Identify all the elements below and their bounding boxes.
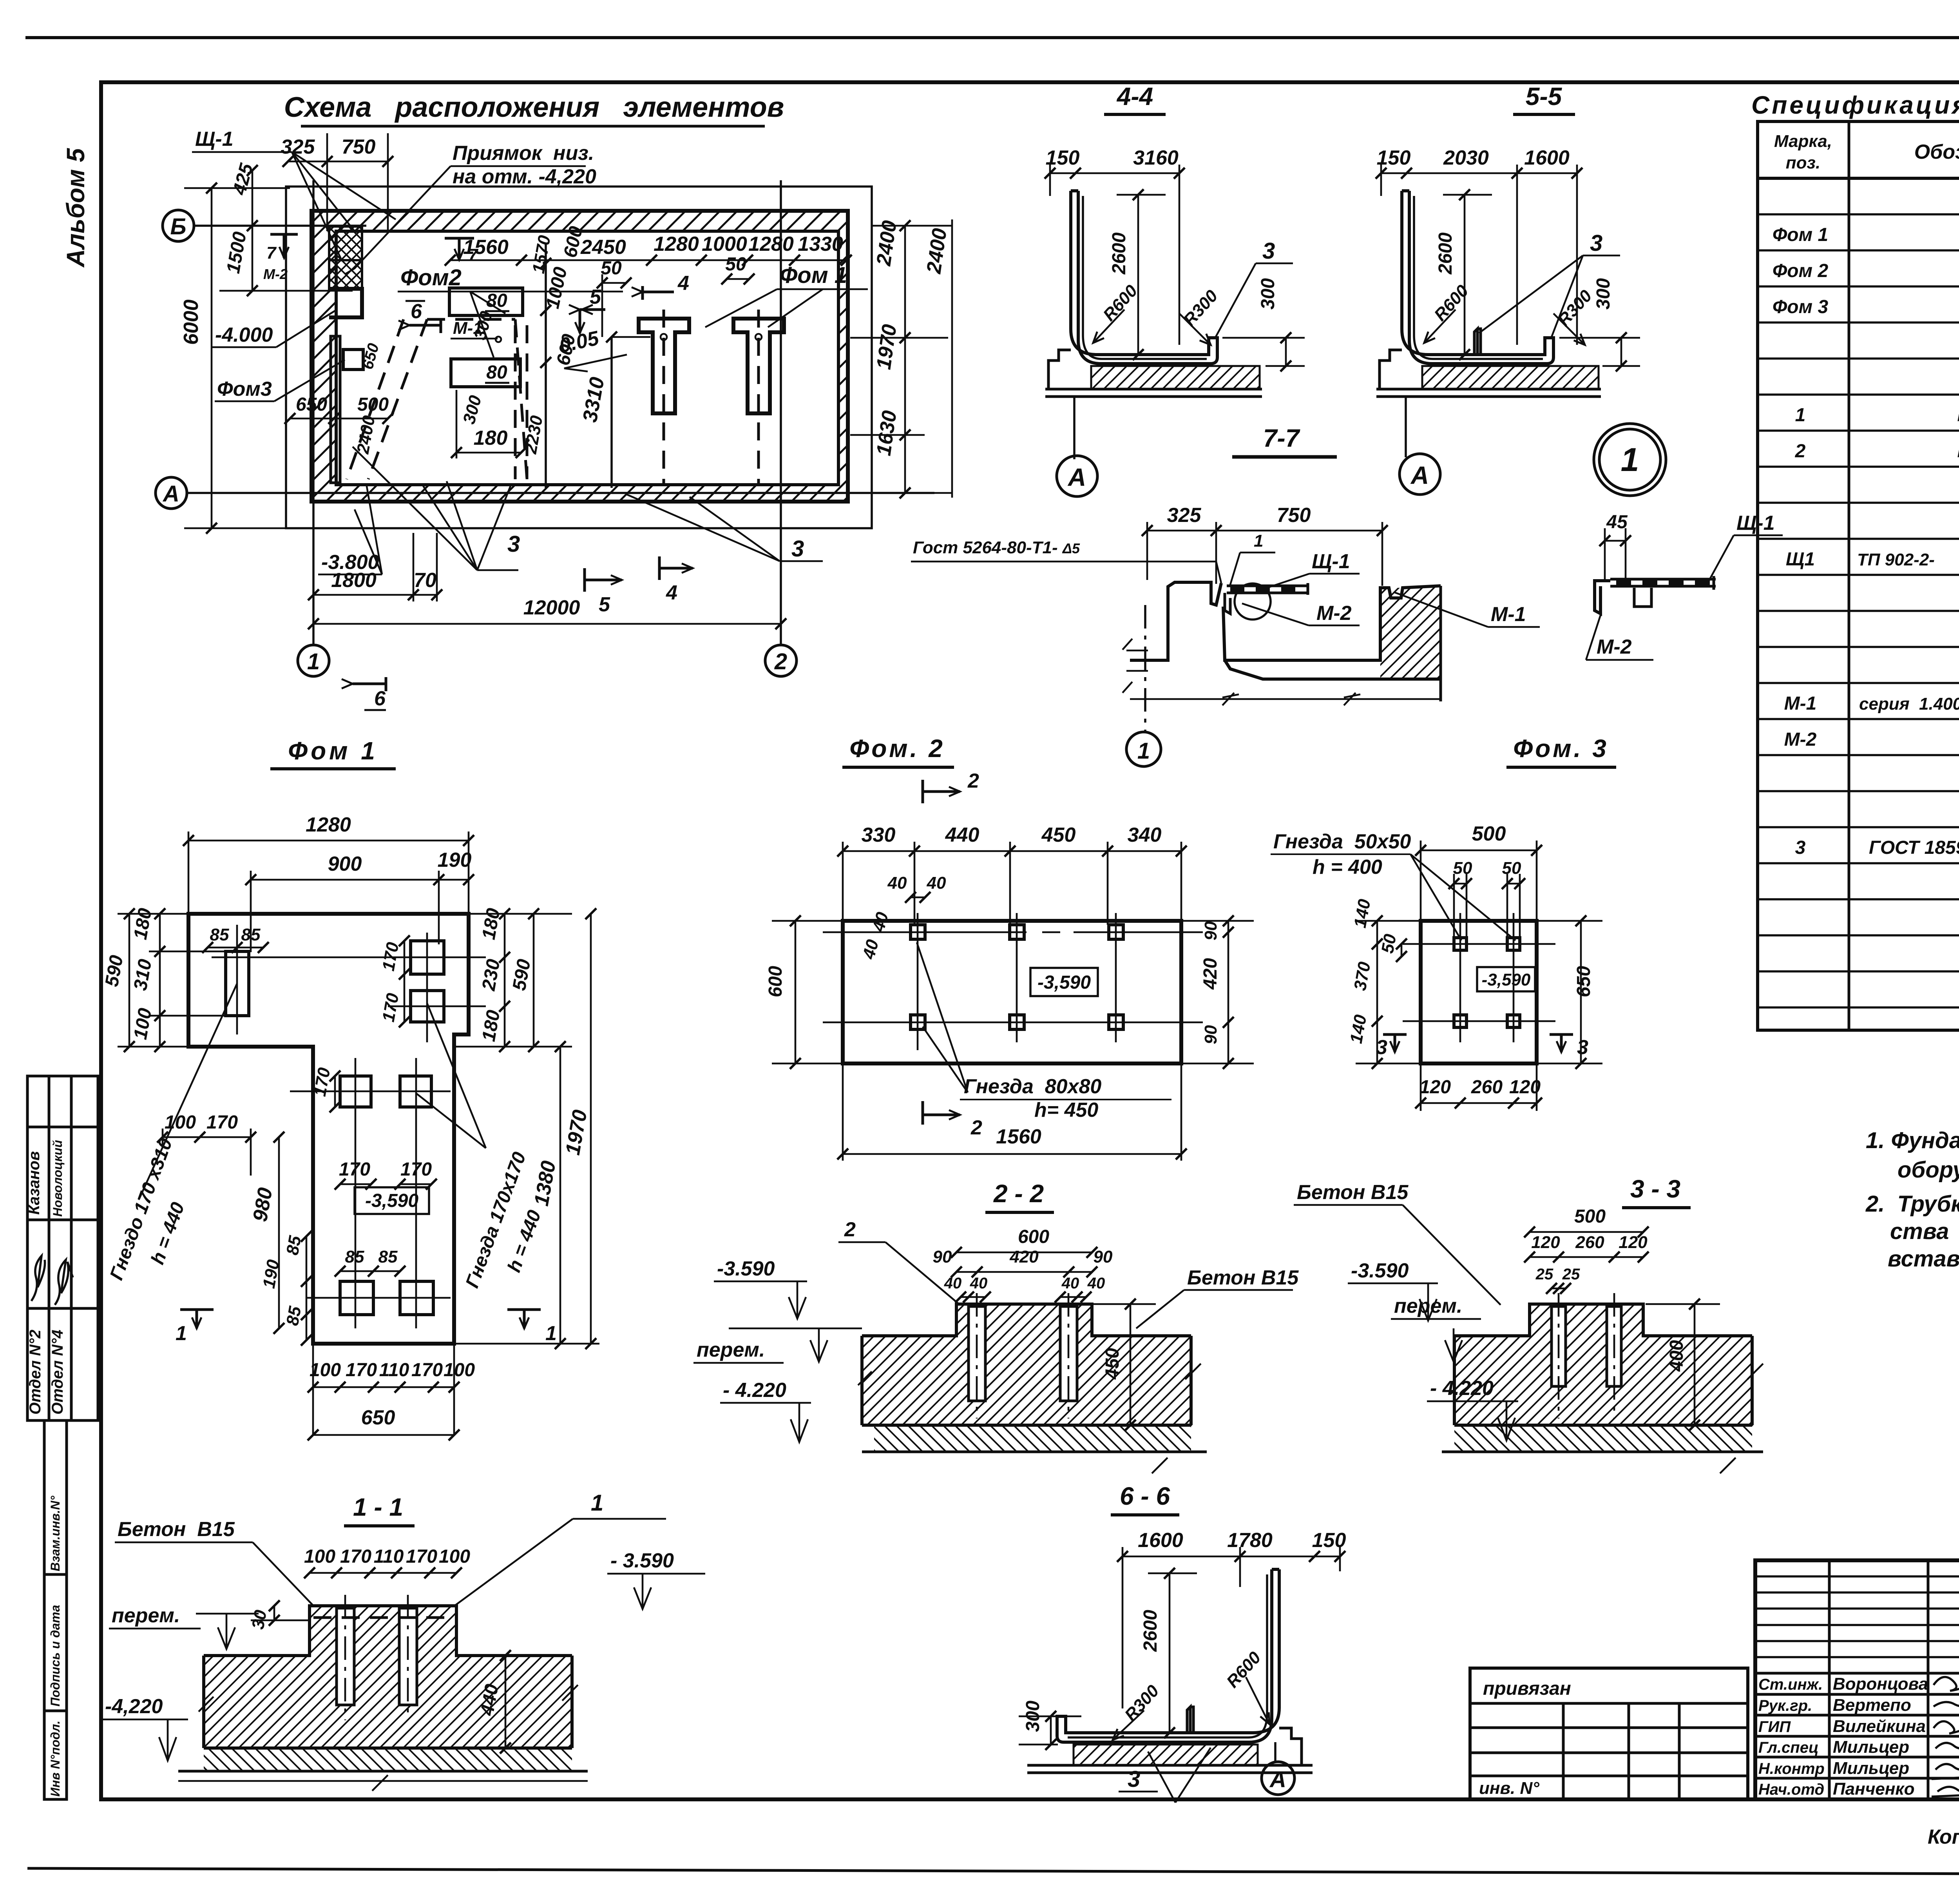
spec table row lines — [1758, 214, 1959, 1007]
svg-text:Отдел N°2: Отдел N°2 — [27, 1330, 44, 1415]
Фом 1 centerlines — [212, 925, 486, 1328]
svg-text:50: 50 — [1453, 859, 1472, 878]
svg-text:330: 330 — [862, 824, 896, 846]
svg-text:Спецификация к схеме располо: Спецификация к схеме расположения фундам… — [1751, 91, 1959, 119]
section 6-6 base lines — [1027, 1765, 1313, 1773]
plan outer thin rectangle — [286, 187, 872, 528]
svg-text:-4,220: -4,220 — [105, 1695, 163, 1718]
svg-text:420: 420 — [1200, 958, 1221, 990]
Фом 2 elevation box -3,590 — [1030, 968, 1098, 996]
axis circle А — [156, 477, 187, 509]
section 4-4 base lines — [1045, 389, 1262, 397]
plan wall band hatched ring — [311, 211, 848, 502]
svg-text:Щ-1: Щ-1 — [1312, 550, 1350, 573]
svg-text:Гнезда 80х80: Гнезда 80х80 — [964, 1075, 1101, 1098]
svg-text:1600: 1600 — [1138, 1529, 1183, 1552]
svg-text:170: 170 — [400, 1159, 432, 1180]
svg-text:2600: 2600 — [1140, 1610, 1161, 1652]
svg-text:1000: 1000 — [702, 233, 747, 255]
svg-text:3: 3 — [1128, 1766, 1140, 1792]
svg-text:ГИП: ГИП — [1758, 1718, 1791, 1736]
svg-text:4-4: 4-4 — [1116, 82, 1153, 111]
svg-text:2. Трубки закладываются в: 2. Трубки закладываются во время устрой- — [1865, 1191, 1959, 1217]
svg-text:25: 25 — [1562, 1266, 1580, 1283]
svg-text:170: 170 — [411, 1360, 443, 1380]
svg-text:450: 450 — [1041, 824, 1076, 846]
svg-text:120: 120 — [1619, 1233, 1648, 1252]
section 2-2 sleeve left — [969, 1306, 985, 1401]
svg-text:4: 4 — [677, 272, 689, 295]
svg-text:Щ-1: Щ-1 — [1736, 512, 1775, 534]
niche thick rect below panel — [329, 289, 362, 317]
Фом 1 socket lower left — [340, 1281, 373, 1315]
svg-text:85: 85 — [283, 1305, 305, 1327]
extension line 2450/1570 — [545, 243, 547, 488]
T-column Фом1 left — [639, 319, 689, 413]
svg-text:Ст.инж.: Ст.инж. — [1758, 1676, 1823, 1693]
svg-text:750: 750 — [342, 136, 376, 158]
svg-text:500: 500 — [357, 394, 389, 415]
svg-text:Щ1: Щ1 — [1786, 549, 1815, 570]
svg-text:650: 650 — [296, 394, 327, 415]
svg-text:100: 100 — [304, 1546, 335, 1567]
svg-text:170: 170 — [406, 1546, 437, 1567]
title block signature rows — [1755, 1673, 1959, 1778]
svg-text:Копировал Ф: Копировал Ф — [1928, 1826, 1959, 1848]
svg-text:1: 1 — [1137, 738, 1150, 764]
svg-text:ТП 902-2-: ТП 902-2- — [1857, 550, 1935, 569]
svg-text:2: 2 — [844, 1218, 856, 1241]
Фом 3 centerlines — [1403, 913, 1555, 1042]
section 3-3 block outline — [1454, 1304, 1752, 1425]
Фом 1 socket lower right — [400, 1281, 433, 1315]
svg-text:1 - 1: 1 - 1 — [353, 1493, 403, 1521]
svg-text:-3,590: -3,590 — [1037, 972, 1091, 993]
svg-text:М-2: М-2 — [1784, 729, 1817, 750]
svg-text:5: 5 — [599, 593, 610, 616]
svg-text:85: 85 — [210, 925, 229, 944]
привязан table columns — [1563, 1703, 1679, 1799]
svg-text:80: 80 — [486, 362, 507, 383]
dim 6000 line — [184, 188, 290, 528]
svg-text:50: 50 — [1502, 859, 1521, 878]
svg-text:40: 40 — [1087, 1275, 1105, 1292]
svg-text:400: 400 — [1666, 1340, 1687, 1372]
sheet outer top border line — [25, 36, 1959, 39]
svg-text:Фом3: Фом3 — [217, 378, 272, 400]
section 6-6 middle pipe stub — [1187, 1707, 1193, 1733]
section 6-6 wall and floor — [1057, 1569, 1279, 1742]
svg-text:Вертепо: Вертепо — [1833, 1696, 1911, 1715]
svg-text:М-1: М-1 — [1784, 693, 1817, 714]
svg-text:Щ-1: Щ-1 — [195, 128, 234, 150]
Фом 2 section mark 2 top — [923, 780, 960, 803]
М-2 detail panel strip — [1610, 576, 1716, 590]
section 2-2 block outline — [862, 1304, 1191, 1425]
section 3-3 sleeve right — [1607, 1306, 1621, 1386]
svg-text:12000: 12000 — [523, 596, 580, 619]
svg-text:Новолоцкий: Новолоцкий — [51, 1140, 65, 1217]
svg-text:А: А — [162, 481, 179, 507]
section 5-5 floor slab hatched — [1422, 366, 1599, 389]
svg-text:40: 40 — [944, 1275, 962, 1292]
svg-text:6: 6 — [411, 300, 422, 323]
panel Щ-1 second crosshatched cell — [329, 260, 362, 289]
section 1-1 dashed line in pedestal — [313, 1616, 454, 1619]
Фом 2 centerlines — [823, 913, 1203, 1050]
spec table outer box — [1758, 121, 1959, 1030]
axis circle Б — [163, 210, 194, 241]
svg-text:-3.590: -3.590 — [1351, 1259, 1409, 1282]
svg-text:100: 100 — [439, 1546, 470, 1567]
svg-text:Н.контр: Н.контр — [1758, 1760, 1825, 1777]
section 7-7 axis circle 1 — [1126, 732, 1161, 766]
svg-text:оборудования.: оборудования. — [1897, 1157, 1959, 1183]
svg-text:Приямок низ.: Приямок низ. — [453, 142, 594, 165]
svg-text:1: 1 — [545, 1322, 557, 1345]
svg-text:500: 500 — [1472, 822, 1506, 845]
svg-text:перем.: перем. — [1394, 1295, 1462, 1317]
svg-text:инв. N°: инв. N° — [1479, 1779, 1539, 1798]
svg-text:40: 40 — [970, 1275, 988, 1292]
svg-text:450: 450 — [1102, 1348, 1123, 1380]
svg-text:-3,590: -3,590 — [1482, 970, 1531, 989]
svg-text:Бетон В15: Бетон В15 — [1297, 1181, 1409, 1204]
svg-text:- 4.220: - 4.220 — [723, 1379, 786, 1402]
svg-text:420: 420 — [1009, 1247, 1039, 1266]
svg-text:М-2: М-2 — [263, 266, 288, 282]
dim line top — [288, 133, 388, 231]
svg-text:1: 1 — [1621, 441, 1639, 478]
section 3-3 sleeve left — [1552, 1306, 1566, 1386]
svg-text:Фом2: Фом2 — [400, 265, 462, 290]
svg-text:90: 90 — [1201, 921, 1220, 940]
section 6-6 floor slab hatched — [1074, 1745, 1258, 1765]
svg-text:1560: 1560 — [996, 1125, 1041, 1148]
Фом 3 sockets — [1454, 938, 1520, 1027]
Фом 3 elevation box -3,590 — [1477, 967, 1535, 991]
foundation Фом2 rectangle 1 — [449, 288, 523, 315]
Фом 2 sockets top row — [911, 925, 1123, 939]
section 2-2 sleeve centerlines — [977, 1293, 1068, 1418]
svg-text:Схема расположения элемент: Схема расположения элементов — [284, 92, 784, 123]
title block signatures squiggles — [1932, 1677, 1959, 1797]
plan title underline — [301, 125, 765, 128]
svg-text:260: 260 — [1471, 1077, 1503, 1098]
svg-text:1280: 1280 — [306, 813, 351, 836]
left stamp lower block — [44, 1420, 67, 1799]
svg-text:40: 40 — [1061, 1275, 1079, 1292]
Фом 1 socket middle left — [340, 1076, 371, 1107]
section mark 6 bottom — [353, 677, 386, 691]
svg-text:Подпись и дата: Подпись и дата — [48, 1605, 62, 1707]
section 1-1 sleeve centerlines — [345, 1595, 408, 1720]
svg-text:85: 85 — [345, 1247, 364, 1266]
section mark 5 — [580, 310, 605, 333]
svg-text:325: 325 — [1167, 504, 1202, 527]
svg-text:110: 110 — [379, 1360, 409, 1380]
section mark 5 bottom — [585, 568, 622, 592]
svg-text:25: 25 — [1535, 1266, 1553, 1283]
spec table header separator — [1758, 177, 1959, 180]
small dim ticks column — [545, 263, 547, 362]
svg-text:Рук.гр.: Рук.гр. — [1758, 1697, 1812, 1714]
section 7-7 hatched ground right — [1380, 586, 1441, 679]
svg-text:40: 40 — [887, 873, 907, 893]
section 2-2 sleeve right — [1060, 1306, 1077, 1401]
section 5-5 wall and floor — [1402, 191, 1553, 364]
svg-text:650: 650 — [361, 1406, 395, 1429]
svg-text:перем.: перем. — [697, 1339, 765, 1361]
svg-text:Фом. 2: Фом. 2 — [849, 734, 945, 763]
section 3-3 sleeve centerlines — [1559, 1293, 1614, 1418]
svg-text:Гнезда 50х50: Гнезда 50х50 — [1273, 830, 1411, 853]
axis line Б — [194, 225, 366, 227]
svg-text:3160: 3160 — [1133, 147, 1179, 169]
leader Щ-1 — [192, 152, 396, 259]
svg-text:190: 190 — [438, 849, 472, 871]
svg-text:М-2: М-2 — [1316, 602, 1352, 625]
section 4-4 wall and floor — [1071, 191, 1217, 364]
svg-text:100: 100 — [165, 1112, 196, 1133]
section 6-6 wall inner thin line — [1068, 1574, 1267, 1737]
section 1-1 sleeve left — [337, 1608, 354, 1705]
svg-text:3: 3 — [791, 536, 804, 562]
svg-text:3: 3 — [1262, 238, 1275, 264]
svg-text:1: 1 — [1795, 405, 1806, 426]
привязан table rows — [1470, 1703, 1748, 1776]
svg-text:перем.: перем. — [112, 1604, 180, 1627]
svg-text:Фом 3: Фом 3 — [1773, 297, 1829, 317]
svg-text:2: 2 — [1795, 441, 1806, 462]
Фом 1 elevation box -3,590 — [355, 1187, 429, 1214]
section 5-5 base lines — [1376, 389, 1601, 397]
svg-text:40: 40 — [927, 873, 946, 893]
svg-text:- 3.590: - 3.590 — [610, 1549, 674, 1572]
svg-text:Мильцер: Мильцер — [1833, 1759, 1909, 1778]
svg-text:ГОСТ 18599-83*: ГОСТ 18599-83* — [1869, 837, 1959, 858]
svg-text:1. Фундаменты выполняются по: 1. Фундаменты выполняются по получении — [1866, 1128, 1959, 1153]
plan wall inner rect — [336, 231, 838, 485]
svg-text:1: 1 — [307, 649, 320, 674]
svg-text:1: 1 — [176, 1322, 187, 1345]
Фом 1 socket right lower — [411, 991, 444, 1022]
section mark 4 bottom — [659, 556, 693, 580]
svg-text:2: 2 — [967, 770, 979, 792]
svg-text:Б: Б — [170, 214, 186, 239]
plan wall outer rect — [311, 211, 848, 502]
section 1-1 lower band hatched — [204, 1748, 572, 1771]
Фом 1 socket right upper — [411, 941, 444, 974]
section 6-6 right foot — [1279, 1728, 1302, 1765]
svg-text:600: 600 — [1018, 1226, 1049, 1247]
svg-text:300: 300 — [1593, 278, 1614, 310]
Фом1 centerline left dashed — [663, 310, 665, 485]
right dim vertical line — [850, 219, 952, 498]
svg-text:1600: 1600 — [1524, 147, 1570, 169]
axis circle 1 — [298, 645, 329, 676]
axis 2 vertical line — [780, 180, 782, 645]
svg-text:2600: 2600 — [1435, 232, 1456, 275]
svg-text:90: 90 — [1094, 1247, 1113, 1266]
svg-text:650: 650 — [1573, 966, 1594, 997]
svg-text:3 - 3: 3 - 3 — [1630, 1175, 1680, 1203]
svg-text:Нач.отд: Нач.отд — [1758, 1781, 1824, 1798]
svg-text:3: 3 — [1795, 837, 1806, 858]
section 4-4 axis circle А — [1073, 397, 1075, 459]
svg-text:7: 7 — [266, 243, 277, 263]
svg-text:Бетон В15: Бетон В15 — [1187, 1266, 1299, 1289]
section 1-1 concrete block hatched — [204, 1606, 572, 1748]
svg-text:100: 100 — [444, 1360, 475, 1380]
svg-text:Воронцова: Воронцова — [1833, 1674, 1928, 1694]
svg-text:на отм. -4,220: на отм. -4,220 — [453, 165, 596, 188]
svg-text:500: 500 — [1574, 1206, 1606, 1227]
big detail circle 1 — [1594, 424, 1666, 496]
svg-text:h= 450: h= 450 — [1034, 1099, 1098, 1121]
svg-text:45: 45 — [1606, 512, 1628, 533]
axis circle 2 — [765, 645, 797, 676]
section 2-2 lower band hatched — [874, 1425, 1191, 1452]
svg-text:3: 3 — [1577, 1036, 1588, 1059]
section 7-7 base level marks — [1123, 639, 1148, 693]
svg-text:2: 2 — [774, 649, 787, 674]
svg-text:85: 85 — [378, 1247, 398, 1266]
Фом 3 slab square — [1421, 921, 1537, 1063]
spec table column lines — [1849, 121, 1959, 1030]
svg-text:260: 260 — [1575, 1233, 1604, 1252]
svg-text:3: 3 — [1376, 1036, 1387, 1059]
section 5-5 left foot — [1380, 350, 1402, 389]
svg-text:1780: 1780 — [1227, 1529, 1273, 1552]
svg-text:2 - 2: 2 - 2 — [993, 1179, 1044, 1208]
svg-text:50: 50 — [601, 258, 622, 279]
svg-text:90: 90 — [1201, 1025, 1220, 1044]
svg-text:4: 4 — [666, 582, 677, 604]
section 1-1 break marks — [178, 1685, 588, 1791]
svg-text:3: 3 — [1590, 230, 1602, 256]
svg-text:Бетон В15: Бетон В15 — [118, 1518, 235, 1541]
svg-text:2: 2 — [970, 1116, 982, 1139]
svg-text:90: 90 — [933, 1247, 952, 1266]
svg-text:поз.: поз. — [1786, 153, 1820, 172]
svg-text:привязан: привязан — [1483, 1678, 1571, 1699]
section 3-3 break marks — [1450, 1364, 1763, 1473]
svg-text:Обозначение: Обозначение — [1914, 141, 1959, 163]
inner top dim line — [450, 259, 846, 261]
привязан table box — [1470, 1668, 1748, 1799]
section 7-7 axis dash line — [1144, 605, 1146, 731]
svg-text:серия 1.400-15 вып.1: серия 1.400-15 вып.1 — [1859, 694, 1959, 714]
svg-text:440: 440 — [945, 824, 979, 846]
svg-text:Фом 1: Фом 1 — [1773, 225, 1828, 245]
Фом1 centerline right dashed — [757, 310, 760, 485]
svg-text:Фом 2: Фом 2 — [1773, 261, 1829, 281]
svg-text:120: 120 — [1419, 1077, 1451, 1098]
Фом 2 slab rectangle — [843, 921, 1181, 1063]
svg-text:50: 50 — [725, 254, 746, 275]
svg-text:Инв N°подл.: Инв N°подл. — [48, 1721, 62, 1797]
svg-text:1: 1 — [1254, 531, 1263, 551]
small square 650 — [343, 350, 363, 370]
svg-text:85: 85 — [241, 925, 261, 944]
foundation Фом2 rectangle 2 — [451, 359, 520, 387]
svg-text:6 - 6: 6 - 6 — [1120, 1482, 1170, 1510]
tick on axis A for 3310 — [612, 334, 762, 340]
svg-text:Фом 1: Фом 1 — [288, 737, 378, 765]
title block left thin grid rows — [1755, 1576, 1959, 1657]
svg-text:180: 180 — [474, 427, 508, 449]
sheet outer bottom border line — [27, 1868, 1959, 1875]
section 4-4 left foot — [1048, 350, 1071, 389]
svg-text:170: 170 — [340, 1546, 371, 1567]
svg-text:1280: 1280 — [748, 233, 794, 255]
svg-text:Фом. 3: Фом. 3 — [1513, 734, 1609, 763]
axis 1 vertical line — [312, 180, 315, 645]
svg-text:Отдел N°4: Отдел N°4 — [49, 1330, 66, 1415]
Фом 2 sockets bottom row — [911, 1015, 1123, 1029]
section 5-5 axis circle А — [1405, 397, 1407, 457]
svg-text:ства подготовки под полы.: ства подготовки под полы. В концы трубок — [1890, 1219, 1959, 1244]
svg-text:3: 3 — [507, 531, 520, 557]
svg-text:Альбом 5: Альбом 5 — [62, 148, 90, 268]
svg-text:1800: 1800 — [331, 569, 377, 592]
svg-text:ГОСТ 23279-85: ГОСТ 23279-85 — [1957, 441, 1959, 462]
svg-text:Вилейкина: Вилейкина — [1833, 1717, 1926, 1736]
svg-text:5: 5 — [590, 286, 601, 308]
svg-text:М-1: М-1 — [1491, 603, 1526, 626]
svg-text:1: 1 — [591, 1490, 603, 1516]
svg-text:2450: 2450 — [580, 236, 626, 259]
svg-text:М-2: М-2 — [1597, 636, 1632, 658]
svg-text:110: 110 — [374, 1546, 404, 1567]
section 1-1 block outline — [204, 1606, 572, 1748]
svg-text:-3,590: -3,590 — [365, 1190, 418, 1211]
foundation Фом3 strip — [331, 336, 340, 483]
Фом 3 section mark 3 left — [1383, 1034, 1407, 1052]
svg-text:300: 300 — [1258, 278, 1278, 310]
title block outer box — [1755, 1560, 1959, 1799]
svg-text:Гост 5264-80-Т1- Δ5: Гост 5264-80-Т1- Δ5 — [913, 538, 1080, 557]
axis line А — [187, 492, 934, 494]
svg-text:170: 170 — [206, 1112, 238, 1133]
section 7-7 pedestal and pit profile — [1130, 582, 1441, 679]
section 7-7 bottom reference line — [1130, 693, 1441, 705]
Фом 3 section mark 3 right — [1550, 1034, 1573, 1052]
svg-text:340: 340 — [1128, 824, 1162, 846]
svg-text:-4.000: -4.000 — [215, 324, 273, 346]
section 2-2 concrete block hatched — [862, 1304, 1191, 1425]
section mark 7 top — [445, 238, 474, 260]
svg-text:170: 170 — [339, 1159, 370, 1180]
svg-text:Казанов: Казанов — [25, 1151, 43, 1215]
dashed pair 2230 2250 — [515, 325, 527, 479]
T-column Фом1 right — [733, 319, 784, 413]
svg-text:5-5: 5-5 — [1526, 82, 1562, 111]
svg-text:-3.590: -3.590 — [717, 1257, 775, 1280]
Фом 1 section mark 1 left — [180, 1310, 214, 1328]
svg-text:1280: 1280 — [654, 233, 699, 255]
svg-text:50: 50 — [1378, 933, 1400, 955]
svg-text:А: А — [1067, 463, 1086, 491]
svg-text:Панченко: Панченко — [1833, 1779, 1915, 1799]
section 7-7 detail circle — [1235, 583, 1271, 620]
section mark 6 — [409, 319, 441, 333]
svg-text:6: 6 — [374, 687, 386, 710]
section 2-2 break marks — [858, 1364, 1201, 1473]
svg-text:2600: 2600 — [1109, 232, 1130, 275]
svg-text:Мильцер: Мильцер — [1833, 1737, 1909, 1757]
